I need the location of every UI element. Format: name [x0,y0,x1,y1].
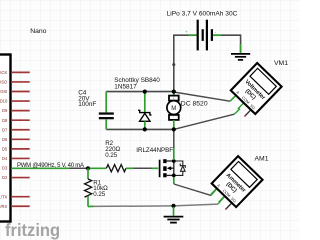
svg-text:D7: D7 [2,127,8,132]
svg-text:1N5817: 1N5817 [114,83,137,90]
svg-text:D5: D5 [2,147,8,152]
wire: mosfet source to AM1 A pin [174,177,217,195]
nano pin D2 [2,175,30,180]
mosfet Q1 IRLZ44NPBF [160,159,186,182]
svg-text:D2: D2 [2,175,8,180]
svg-text:D3: D3 [2,166,8,171]
svg-text:MOSI: MOSI [0,89,7,94]
svg-text:0.25: 0.25 [93,191,106,198]
resistor R2 220 [106,165,158,172]
svg-text:M: M [171,106,176,112]
svg-text:1/TX: 1/TX [0,194,8,199]
wire: D3 PWM net to R1/R2 junction [11,167,106,169]
capacitor C4 [99,92,114,130]
ammeter AM1 [205,156,262,214]
svg-text:SCK: SCK [0,70,7,75]
nano pin D9 [2,108,30,113]
svg-text:DC 8520: DC 8520 [181,101,208,108]
node junction dot ground rail [171,204,175,208]
nano pin MOSI [0,89,30,94]
node junction dot motor- [172,127,176,131]
nano pin D4 [2,156,30,161]
label R1 10kohm 0.25 [93,179,108,198]
label R2 220ohm 0.25 [105,140,120,159]
label Schottky SB840 1N5817 [114,77,160,90]
wire: motor- node down to mosfet drain [173,129,175,160]
nano pin D10 [0,99,30,104]
node junction dot motor+ [172,90,176,94]
nano pin D5 [2,147,30,152]
svg-text:100nF: 100nF [78,101,96,108]
svg-text:0/RX: 0/RX [0,204,8,209]
svg-text:D10: D10 [0,99,8,104]
svg-text:LiPo 3,7 V 600mAh 30C: LiPo 3,7 V 600mAh 30C [167,11,238,18]
nano pin D3 connected [2,166,8,171]
svg-text:Nano: Nano [30,28,46,35]
node junction dot diode bottom [143,127,147,131]
nano pin D7 [2,127,30,132]
resistor R1 10k [85,168,92,206]
nano pin D6 [2,137,30,142]
wire: motor+ node to VM1 A pin [174,92,236,101]
svg-text:PWM @490Hz, 5 V, 40 mA: PWM @490Hz, 5 V, 40 mA [17,163,84,169]
label C4 20V 100nF [78,90,96,109]
wire: top rail motor+ (C4 to motor top node) [106,91,174,93]
svg-text:D4: D4 [2,156,8,161]
ground GND2 (source) [164,207,184,223]
svg-text:VM1: VM1 [274,60,288,67]
motor M1 DC 8520 [167,92,181,129]
svg-text:+: + [185,30,188,35]
node junction dot D3/R1/R2 [86,166,90,170]
svg-text:IRLZ44NPBF: IRLZ44NPBF [136,147,173,154]
nano pin 0/RX [0,204,30,209]
wire: battery- right lead down to ground [213,35,240,53]
wire: motor- node to VM1 COM pin [174,109,240,130]
svg-text:D6: D6 [2,137,8,142]
nano pin 1/TX [0,194,30,199]
nano pin MISO [0,80,30,85]
nano pin SCK [0,70,30,75]
node junction dot diode top [143,90,147,94]
svg-text:D8: D8 [2,118,8,123]
ground GND1 (battery) [231,54,250,60]
nano pin D8 [2,118,30,123]
svg-text:0.25: 0.25 [105,152,118,159]
voltmeter VM1 [224,63,281,121]
schottky diode D1 1N5817 [138,92,151,130]
svg-text:fritzing: fritzing [5,219,60,240]
Arduino Nano module body [0,55,11,222]
svg-text:AM1: AM1 [255,155,269,162]
svg-text:D9: D9 [2,108,8,113]
wire: bottom rail motor- (C4 bottom to motor bottom node) [106,128,174,130]
battery BAT1 LiPo [185,20,217,51]
wire: battery+ left lead down to motor+ node [172,35,197,91]
svg-text:MISO: MISO [0,80,8,85]
wire: R1 bottom to ground rail and AM1 COM [88,197,224,207]
